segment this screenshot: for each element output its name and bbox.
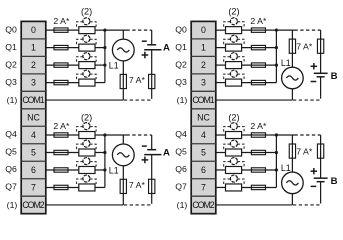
svg-text:2: 2 (31, 60, 36, 70)
svg-text:A: A (163, 147, 170, 158)
svg-text:B: B (331, 71, 338, 82)
svg-text:Q3: Q3 (5, 77, 17, 87)
svg-text:L1: L1 (109, 165, 119, 175)
svg-text:0: 0 (31, 25, 36, 35)
svg-text:(1): (1) (7, 95, 18, 105)
svg-text:B: B (331, 176, 338, 187)
svg-text:(2): (2) (81, 7, 92, 17)
svg-text:3: 3 (201, 78, 206, 88)
svg-text:A: A (163, 43, 170, 54)
svg-text:Q6: Q6 (175, 164, 187, 174)
svg-text:4: 4 (31, 130, 36, 140)
svg-text:Q5: Q5 (5, 147, 17, 157)
svg-text:6: 6 (31, 165, 36, 175)
svg-text:Q0: Q0 (5, 24, 17, 34)
svg-text:2 A*: 2 A* (250, 16, 267, 26)
svg-text:Q4: Q4 (175, 129, 187, 139)
svg-text:(1): (1) (177, 200, 188, 210)
svg-text:COM1: COM1 (22, 95, 44, 105)
svg-text:7 A*: 7 A* (129, 180, 146, 190)
svg-text:(2): (2) (228, 7, 239, 17)
svg-text:4: 4 (201, 130, 206, 140)
svg-text:1: 1 (31, 43, 36, 53)
svg-text:Q5: Q5 (175, 147, 187, 157)
svg-text:2: 2 (201, 60, 206, 70)
svg-text:NC: NC (27, 113, 40, 123)
svg-text:5: 5 (201, 148, 206, 158)
svg-text:7 A*: 7 A* (296, 146, 313, 156)
svg-text:2 A*: 2 A* (53, 16, 70, 26)
svg-text:2 A*: 2 A* (250, 121, 267, 131)
svg-text:NC: NC (197, 113, 210, 123)
svg-text:L1: L1 (281, 163, 291, 173)
svg-text:(2): (2) (228, 112, 239, 122)
svg-text:COM2: COM2 (22, 200, 44, 210)
svg-text:Q3: Q3 (175, 77, 187, 87)
svg-text:3: 3 (31, 78, 36, 88)
svg-text:5: 5 (31, 148, 36, 158)
svg-text:1: 1 (201, 43, 206, 53)
svg-text:(1): (1) (7, 200, 18, 210)
svg-text:7 A*: 7 A* (296, 41, 313, 51)
svg-text:L1: L1 (281, 58, 291, 68)
svg-text:L1: L1 (109, 61, 119, 71)
svg-text:Q2: Q2 (175, 59, 187, 69)
svg-text:7 A*: 7 A* (129, 75, 146, 85)
svg-text:Q7: Q7 (175, 182, 187, 192)
svg-text:(1): (1) (177, 95, 188, 105)
svg-text:Q6: Q6 (5, 164, 17, 174)
svg-text:2 A*: 2 A* (53, 121, 70, 131)
svg-text:Q1: Q1 (5, 42, 17, 52)
svg-text:COM1: COM1 (192, 95, 214, 105)
svg-text:Q1: Q1 (175, 42, 187, 52)
svg-text:Q4: Q4 (5, 129, 17, 139)
svg-text:Q2: Q2 (5, 59, 17, 69)
svg-text:(2): (2) (81, 112, 92, 122)
svg-text:Q7: Q7 (5, 182, 17, 192)
svg-text:7: 7 (31, 183, 36, 193)
svg-text:0: 0 (201, 25, 206, 35)
svg-text:6: 6 (201, 165, 206, 175)
svg-text:Q0: Q0 (175, 24, 187, 34)
svg-text:7: 7 (201, 183, 206, 193)
svg-text:COM2: COM2 (192, 200, 214, 210)
